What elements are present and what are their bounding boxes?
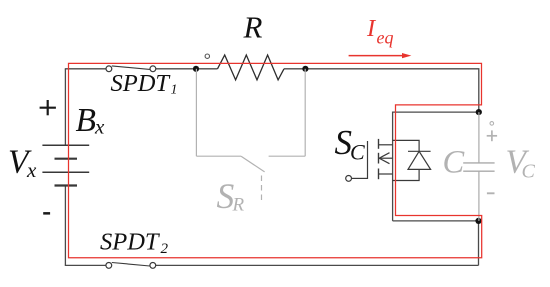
node D junction dot — [475, 218, 481, 224]
svg-text:R: R — [232, 195, 245, 216]
MOSFET SC: drain connection — [379, 144, 393, 146]
MOSFET SC: gate lead — [352, 177, 368, 179]
node B junction dot — [302, 66, 308, 72]
capacitor C: bottom plate — [463, 170, 494, 172]
svg-text:SPDT: SPDT — [111, 70, 172, 97]
svg-text:2: 2 — [161, 241, 169, 257]
MOSFET SC: body arrowhead — [379, 153, 389, 164]
switch SR branch: left horizontal lead — [196, 155, 241, 157]
battery Bx: short plate (bottom, -) — [55, 184, 78, 186]
capacitor: small open terminal circle — [490, 122, 494, 126]
MOSFET SC: channel segment top — [378, 139, 380, 149]
switch SR branch: right vertical to node B — [304, 69, 306, 156]
wire: top, SPDT1 to node A — [156, 68, 196, 70]
battery plus sign — [40, 107, 56, 109]
switch SR branch: right horizontal lead — [269, 155, 306, 157]
svg-text:C: C — [522, 161, 536, 183]
wire: left vertical (battery top lead) — [64, 69, 66, 145]
wire: node A to resistor — [196, 68, 218, 70]
svg-text:C: C — [350, 140, 365, 165]
wire: resistor to node B to top-right corner, down to node C — [284, 69, 479, 112]
wire: top, battery to SPDT1 — [65, 68, 106, 70]
wire: node C left then down (MOSFET branch top) — [393, 112, 479, 221]
svg-text:1: 1 — [171, 83, 178, 98]
battery minus sign — [43, 212, 50, 215]
switch SPDT1: left pole circle — [106, 66, 112, 72]
switch SPDT2: right throw circle — [150, 263, 156, 269]
switch SR branch: left vertical from node A — [195, 69, 197, 156]
switch SPDT1: right throw circle — [150, 66, 156, 72]
capacitor: minus polarity sign — [487, 192, 495, 194]
svg-text:x: x — [26, 158, 37, 182]
wire: MOSFET branch bottom to node D, down to bottom wire — [393, 221, 479, 266]
wire: left vertical (battery bottom lead) — [64, 186, 66, 266]
switch SPDT2: blade — [112, 263, 150, 267]
capacitor C: top lead — [478, 112, 480, 163]
switch SR: open blade — [241, 156, 265, 172]
node C junction dot — [476, 109, 482, 115]
switch SPDT1: open throw terminal circle — [205, 54, 209, 58]
capacitor C: top plate — [463, 162, 494, 164]
wire: bottom, SPDT2 to battery — [65, 264, 106, 266]
wire: bottom, right portion to SPDT2 — [156, 264, 479, 266]
body diode: triangle — [408, 151, 431, 169]
svg-text:SPDT: SPDT — [100, 228, 161, 255]
capacitor: plus polarity sign — [487, 135, 497, 137]
battery Bx: long plate — [42, 171, 89, 173]
battery Bx: long plate (top, +) — [42, 144, 89, 146]
switch SPDT1: blade — [112, 66, 150, 70]
resistor R zigzag — [218, 55, 285, 80]
body diode: bottom connector — [393, 169, 420, 180]
MOSFET SC: channel segment bottom — [378, 169, 380, 180]
body diode: cathode bar — [408, 150, 431, 152]
battery Bx: short plate — [55, 158, 78, 160]
arrow Ieq — [349, 53, 412, 58]
wire: red equivalent-current path loop — [69, 63, 482, 257]
capacitor C: bottom lead — [478, 171, 480, 221]
switch SR: dashed actuation line — [261, 176, 263, 202]
switch SPDT2: left pole circle — [106, 263, 112, 269]
MOSFET SC: body arrow shaft — [379, 157, 392, 159]
MOSFET SC: gate terminal circle — [346, 176, 352, 182]
node A junction dot — [193, 66, 199, 72]
MOSFET SC: source connection — [379, 173, 393, 175]
MOSFET SC: channel segment middle — [378, 153, 380, 164]
svg-text:eq: eq — [377, 28, 394, 48]
MOSFET SC: gate bar — [367, 141, 369, 179]
svg-text:C: C — [443, 145, 465, 181]
svg-text:R: R — [243, 10, 263, 45]
svg-text:x: x — [94, 115, 105, 139]
body diode: top connector — [393, 140, 420, 151]
svg-text:B: B — [76, 102, 96, 139]
